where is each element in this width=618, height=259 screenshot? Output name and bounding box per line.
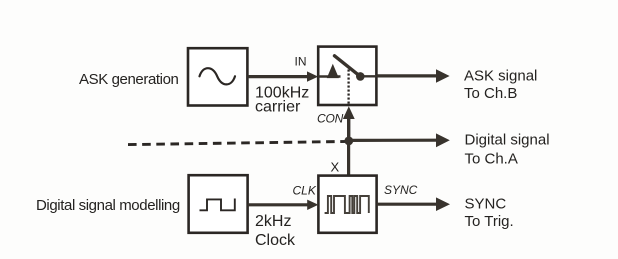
junction node xyxy=(344,137,353,146)
wire switch input stub xyxy=(318,75,340,78)
wire digital signal arrow xyxy=(349,139,437,142)
wire CON control arrow up into switch xyxy=(347,118,350,142)
svg-text:To Trig.: To Trig. xyxy=(465,213,514,230)
wire pole to box edge xyxy=(360,75,376,77)
block U4 clock source xyxy=(189,175,248,233)
sine symbol xyxy=(200,68,236,84)
svg-text:SYNC: SYNC xyxy=(384,183,418,197)
switch pole dot xyxy=(356,72,365,81)
svg-text:To Ch.B: To Ch.B xyxy=(464,85,517,102)
switch lever xyxy=(335,56,361,76)
svg-text:ASK generation: ASK generation xyxy=(79,71,179,88)
wire SYNC output arrow xyxy=(377,203,437,206)
svg-text:X: X xyxy=(331,160,340,175)
svg-text:Digital signal: Digital signal xyxy=(465,132,550,149)
block U1 sine carrier source xyxy=(188,48,247,105)
svg-text:Clock: Clock xyxy=(255,232,296,249)
dotted control line inside switch xyxy=(347,70,349,104)
svg-text:IN: IN xyxy=(295,55,307,69)
square pulse symbol xyxy=(200,199,235,211)
svg-text:ASK signal: ASK signal xyxy=(464,68,537,85)
wire junction down to X block xyxy=(347,141,350,176)
dashed net digital signal xyxy=(128,141,351,144)
svg-text:2kHz: 2kHz xyxy=(255,213,291,230)
svg-text:CLK: CLK xyxy=(293,183,317,197)
block U3 sampler PRBS out xyxy=(318,176,376,233)
svg-text:CON: CON xyxy=(317,111,344,125)
PRBS waveform symbol xyxy=(325,196,369,213)
wire ASK output arrow xyxy=(376,74,437,77)
svg-text:SYNC: SYNC xyxy=(465,196,507,213)
svg-text:carrier: carrier xyxy=(255,99,301,116)
wire clock to sampler with CLK arrowhead xyxy=(248,203,308,206)
wire carrier to switch with IN arrowhead xyxy=(247,75,308,78)
svg-text:To Ch.A: To Ch.A xyxy=(465,151,518,168)
svg-text:Digital signal modelling: Digital signal modelling xyxy=(36,197,180,214)
block U2 analog switch xyxy=(318,47,376,105)
switch input triangle xyxy=(327,64,339,78)
